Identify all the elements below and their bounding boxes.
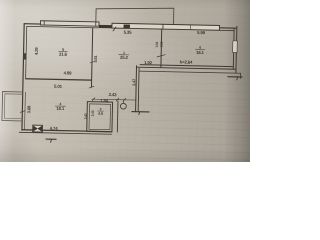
svg-text:2.43: 2.43 [91, 110, 95, 116]
svg-text:18.1: 18.1 [56, 106, 65, 111]
svg-text:5.51: 5.51 [93, 54, 98, 62]
svg-text:1.92: 1.92 [144, 60, 153, 65]
svg-text:21.6: 21.6 [59, 52, 68, 57]
svg-text:1.84: 1.84 [100, 98, 109, 103]
svg-text:4.5: 4.5 [98, 112, 103, 116]
svg-text:4.29: 4.29 [34, 47, 39, 55]
svg-text:5.99: 5.99 [197, 30, 206, 35]
svg-text:5.01: 5.01 [54, 84, 63, 89]
svg-text:3.02: 3.02 [160, 41, 164, 47]
svg-text:2.43: 2.43 [109, 92, 118, 97]
svg-text:3.01: 3.01 [155, 41, 159, 47]
svg-text:25.2: 25.2 [120, 55, 129, 60]
svg-text:h=2.64: h=2.64 [180, 59, 193, 64]
svg-text:2.47: 2.47 [131, 79, 136, 86]
svg-text:18.1: 18.1 [196, 50, 205, 55]
svg-text:3: 3 [100, 107, 102, 111]
svg-text:4.99: 4.99 [64, 70, 73, 75]
svg-text:3.68: 3.68 [26, 105, 31, 113]
svg-text:2.42: 2.42 [84, 113, 88, 119]
svg-text:5.35: 5.35 [124, 30, 133, 35]
svg-text:4.74: 4.74 [50, 126, 59, 131]
